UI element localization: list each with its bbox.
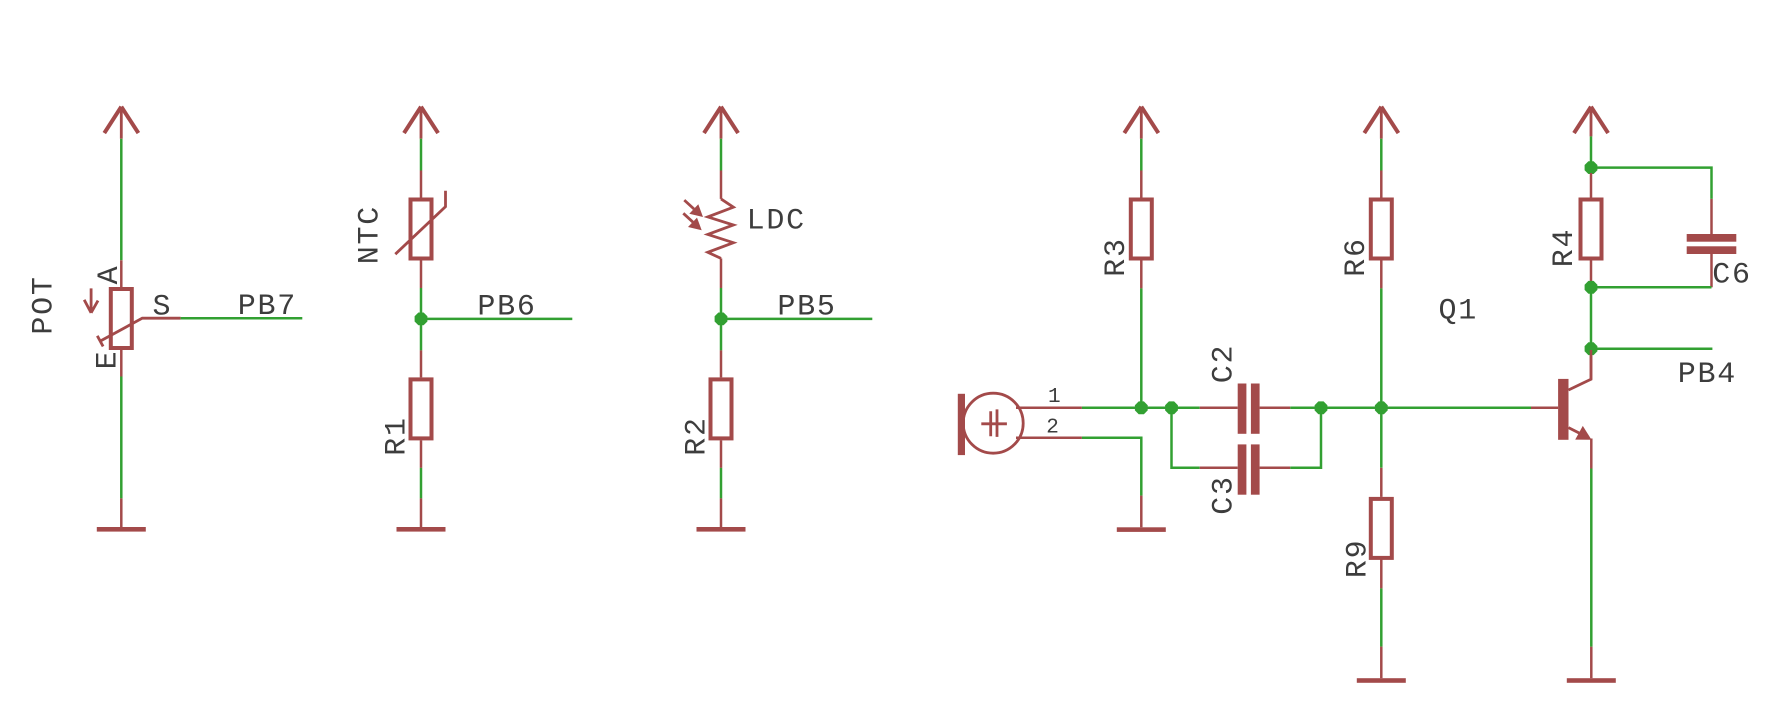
wire node to C2 input (1141, 407, 1199, 410)
wire net PB7 (181, 317, 303, 320)
capacitor C3 (1200, 444, 1291, 494)
emitter wire stub (1590, 439, 1593, 469)
wire top node to C6 (1591, 168, 1712, 199)
wiper end tick (97, 336, 103, 347)
ground (Q1 emitter) (1567, 647, 1616, 683)
wiper diagonal (100, 318, 180, 341)
resistor body (111, 289, 132, 348)
wire VCC to node (1590, 136, 1593, 173)
wire R9 to ground (1380, 588, 1383, 646)
node junction PB6 (415, 313, 428, 326)
resistor R1 (411, 350, 432, 468)
wire POT E to ground (120, 377, 123, 499)
svg-text:R1: R1 (381, 416, 415, 456)
supply arrow VCC (LDC branch) (704, 107, 738, 139)
wire VCC to R6 (1380, 139, 1383, 171)
supply arrow VCC (R3 branch) (1124, 107, 1158, 139)
svg-text:LDC: LDC (747, 205, 806, 239)
svg-text:Q1: Q1 (1439, 294, 1479, 328)
pin 2 stub (1016, 437, 1082, 440)
wire emitter to ground (1590, 469, 1593, 647)
node junction PB5 (715, 313, 728, 326)
supply arrow VCC (R6 branch) (1364, 107, 1398, 139)
node junction base line (1375, 401, 1388, 414)
wire net PB5 (721, 318, 872, 321)
wire R3 to mic node (1140, 288, 1143, 407)
wire C3 output up to node (1290, 408, 1321, 468)
adjustment arrow (84, 288, 98, 312)
supply arrow VCC (R4 branch) (1574, 107, 1608, 137)
svg-text:PB7: PB7 (238, 290, 297, 324)
wire mic pin2 to ground (1082, 438, 1141, 496)
collector lead (1569, 350, 1592, 390)
light arrow 2 (683, 213, 693, 222)
resistor R3 (1131, 171, 1152, 289)
light arrow 1 (684, 200, 694, 209)
supply arrow VCC (NTC branch) (404, 107, 438, 139)
node junction PB4 (1585, 342, 1598, 355)
svg-text:R3: R3 (1100, 237, 1134, 277)
svg-text:E: E (92, 350, 126, 370)
base bar (1558, 379, 1568, 440)
transistor Q1 (1531, 350, 1592, 469)
wire node to PB4 node (1590, 287, 1593, 348)
ground (LDC branch) (697, 498, 746, 531)
wire VCC to POT pin A (120, 139, 123, 261)
wire R1 to ground (420, 468, 423, 499)
svg-text:R2: R2 (681, 416, 715, 456)
svg-text:R6: R6 (1340, 237, 1374, 277)
photoresistor LDC (683, 171, 733, 289)
ground (NTC branch) (397, 498, 446, 531)
potentiometer POT (84, 260, 180, 376)
ground (R9) (1357, 647, 1406, 683)
capacitor C6 (1687, 199, 1737, 287)
svg-text:A: A (93, 265, 127, 285)
svg-text:R9: R9 (1341, 539, 1375, 579)
emitter lead (1569, 428, 1585, 436)
wire net PB4 (1591, 347, 1712, 350)
wire net PB6 (421, 318, 572, 321)
svg-text:1: 1 (1048, 386, 1061, 409)
wire mic pin1 to R3 node (1082, 407, 1141, 410)
wire R6 to R9 (1380, 288, 1383, 467)
supply arrow VCC (POT branch) (104, 107, 138, 139)
svg-text:C2: C2 (1207, 344, 1241, 384)
wire C6 bottom to node (1591, 286, 1712, 289)
thermistor NTC (395, 171, 445, 289)
capacitor C2 (1200, 384, 1291, 434)
svg-text:C6: C6 (1712, 259, 1752, 293)
svg-text:S: S (153, 290, 173, 324)
svg-text:PB4: PB4 (1678, 358, 1737, 392)
resistor R4 (1581, 173, 1602, 287)
wire NTC to R1 (420, 288, 423, 350)
node junction R4/C6 top (1585, 161, 1598, 174)
pin E stub (120, 350, 123, 377)
wire LDC to R2 (720, 288, 723, 350)
resistor R9 (1371, 468, 1392, 589)
wire R2 to ground (720, 468, 723, 499)
wire VCC to R3 (1140, 139, 1143, 171)
resistor R6 (1371, 171, 1392, 289)
svg-text:C3: C3 (1207, 475, 1241, 515)
wire down to C3 input (1172, 408, 1200, 468)
wire VCC to LDC (720, 139, 723, 171)
resistor R2 (711, 350, 732, 468)
pin 1 stub (1016, 407, 1082, 410)
wire node to R6 node (1321, 407, 1381, 410)
node junction C2/C3 right (1315, 401, 1328, 414)
wire C2 output to node (1290, 407, 1321, 410)
ground (microphone) (1117, 496, 1166, 532)
node junction C2/C3 left (1165, 401, 1178, 414)
ground (POT branch) (97, 498, 146, 531)
svg-text:POT: POT (28, 275, 62, 334)
microphone MIC (958, 393, 1082, 455)
wire node to Q1 base (1381, 407, 1531, 410)
svg-text:PB5: PB5 (777, 290, 836, 324)
wire VCC to NTC (420, 139, 423, 171)
emitter arrow (1575, 426, 1591, 440)
svg-text:PB6: PB6 (477, 290, 536, 324)
pin A stub (120, 260, 123, 287)
node junction mic/R3 (1135, 401, 1148, 414)
svg-text:NTC: NTC (354, 205, 388, 264)
node junction R4/C6 bottom (1585, 281, 1598, 294)
collector stub wire (1590, 350, 1593, 379)
svg-text:2: 2 (1046, 416, 1059, 439)
base pin stub (1531, 407, 1558, 410)
svg-text:R4: R4 (1548, 228, 1582, 268)
